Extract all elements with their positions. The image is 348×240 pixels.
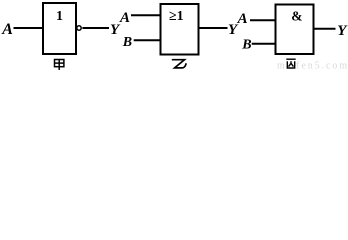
svg-text:&: & [291,8,302,23]
wire (gate 2 to Y) [199,27,228,29]
label 乙 (gate 2 caption) [173,60,187,68]
svg-text:B: B [122,35,132,50]
svg-text:A: A [237,11,248,27]
svg-text:Y: Y [337,23,348,39]
svg-text:1: 1 [56,9,63,24]
svg-text:A: A [1,21,13,38]
wire (A to gate 3) [250,19,276,21]
svg-text:B: B [241,38,251,53]
wire (B to gate 2) [134,39,161,41]
wire (gate 1 to Y) [82,27,109,29]
gate U3 (AND gate box, IEC "&amp;") [276,5,314,55]
gate U1 (NOT gate box, IEC "1") [43,3,76,54]
wire (A to gate 1) [14,27,44,29]
svg-text:≥1: ≥1 [169,9,184,24]
label 甲 (gate 1 caption) [55,59,64,70]
gate U2 (OR gate box, IEC "&#8805;1") [161,4,199,55]
wire (A to gate 2) [131,14,161,16]
label 丙 (gate 3 caption) [286,59,295,68]
wire (B to gate 3) [252,43,276,45]
svg-text:A: A [119,10,130,26]
inverter bubble (gate 1 output) [77,26,81,30]
wire (gate 3 to Y) [314,28,336,30]
